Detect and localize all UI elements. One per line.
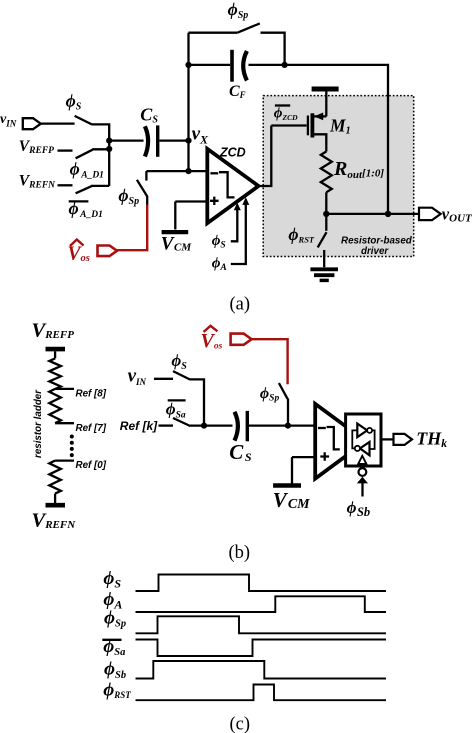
wire Rout to node xyxy=(325,192,327,214)
resistor ladder R bottom xyxy=(49,461,61,494)
switch phi_Sp top xyxy=(188,0,284,65)
wire bus to CS xyxy=(109,139,143,141)
svg-text:Ref [0]: Ref [0] xyxy=(76,460,107,471)
tap Ref7 xyxy=(55,423,107,434)
node dot bus top xyxy=(106,138,112,144)
wire plus input b xyxy=(292,456,315,458)
svg-text:Ref [k]: Ref [k] xyxy=(120,419,158,433)
driver box label xyxy=(341,236,413,258)
node vX vertical xyxy=(185,33,209,175)
wire vOUT xyxy=(326,213,419,215)
arrow phi_S xyxy=(212,203,241,251)
label phi_S c xyxy=(103,568,121,590)
node dot phi_Sp b xyxy=(285,423,291,429)
node dot bus b xyxy=(201,423,207,429)
wire CF to feedback xyxy=(249,65,389,214)
wire VREFP xyxy=(58,149,73,151)
capacitor CS b xyxy=(229,411,252,464)
vIN label b xyxy=(128,366,147,388)
node dot feedback xyxy=(385,211,391,217)
Ref k label xyxy=(120,419,158,433)
VREFP label xyxy=(19,138,54,156)
svg-text:Ref [8]: Ref [8] xyxy=(76,389,107,400)
caption (a) xyxy=(230,295,251,315)
svg-text:Resistor-based: Resistor-based xyxy=(341,236,413,247)
driver shaded box xyxy=(263,96,414,257)
red terminal Vos b xyxy=(201,326,252,352)
wire plus input xyxy=(175,200,207,202)
wire CS to comparator b xyxy=(249,424,315,426)
wire vIN to switch xyxy=(41,122,75,124)
bubble phi_Sb port xyxy=(359,468,367,476)
switch phi_Sp a xyxy=(118,171,147,207)
waveform phi_Sb xyxy=(136,661,387,679)
wire switch to bus xyxy=(92,124,110,186)
svg-text:(b): (b) xyxy=(229,543,251,563)
caption (c) xyxy=(230,715,251,733)
wire bus to CS b xyxy=(190,424,233,426)
svg-text:driver: driver xyxy=(361,246,389,257)
output terminal vOUT xyxy=(419,204,473,224)
wire Refk xyxy=(159,424,174,426)
capacitor CF xyxy=(229,50,247,100)
wire vIN b xyxy=(154,378,173,380)
svg-text:resistor ladder: resistor ladder xyxy=(33,389,44,458)
node dot bus mid xyxy=(106,146,112,152)
waveform phi_A xyxy=(136,596,387,612)
switch phi_Sp b xyxy=(260,383,288,426)
waveform phi_Sp xyxy=(136,616,387,633)
red wire Vos b xyxy=(252,339,288,384)
latch box xyxy=(346,414,381,466)
VCM supply a xyxy=(161,202,193,255)
wire latch output xyxy=(381,438,394,440)
switch phi_A_D1 xyxy=(70,149,110,180)
label phi_Sp c xyxy=(104,607,126,629)
VCM supply b xyxy=(273,457,310,512)
resistor ladder R top xyxy=(49,358,61,389)
supply bar VREFP xyxy=(46,349,66,358)
arrow phi_Sb xyxy=(347,477,371,519)
switch phi_S b xyxy=(171,351,190,380)
red wire Vos a xyxy=(117,205,147,251)
label phi_Sb c xyxy=(104,659,126,681)
capacitor CS xyxy=(140,104,158,156)
tap Ref8 xyxy=(55,389,107,400)
ground xyxy=(310,269,338,280)
switch phi_Sa_bar xyxy=(166,399,190,426)
waveform phi_Sa_bar xyxy=(136,640,387,657)
switch phi_S xyxy=(66,90,92,124)
ladder dots xyxy=(70,435,74,458)
wire comparator output xyxy=(259,126,272,187)
label phi_RST c xyxy=(103,680,131,701)
VREFN label xyxy=(19,173,56,191)
supply bar VDD xyxy=(312,89,339,116)
wire vX to CF xyxy=(189,64,231,66)
wire minus input xyxy=(146,170,207,172)
input terminal vIN xyxy=(0,112,41,129)
wire VREFN xyxy=(58,184,73,186)
supply bar VREFN xyxy=(46,494,66,506)
resistor Rout xyxy=(321,152,385,193)
switch phi_A_D1_bar xyxy=(69,186,110,221)
node vOUT junction xyxy=(323,211,329,217)
svg-text:ZCD: ZCD xyxy=(219,146,246,160)
VREFP label b xyxy=(32,320,75,342)
gate wire phi_ZCD_bar xyxy=(271,105,306,125)
svg-text:(a): (a) xyxy=(230,295,251,315)
op-amp comparator b xyxy=(315,404,366,479)
red terminal Vos a xyxy=(68,240,118,265)
node dot CF right xyxy=(282,62,288,68)
resistor ladder R mid xyxy=(49,389,61,423)
waveform phi_S xyxy=(136,575,387,592)
waveform phi_RST xyxy=(136,685,387,701)
wire CS to vX xyxy=(159,139,188,141)
wire switch to bus b xyxy=(190,379,204,425)
switch phi_RST xyxy=(288,214,326,267)
op-amp ZCD comparator xyxy=(207,146,258,224)
VREFN label b xyxy=(32,510,77,532)
svg-text:Ref [7]: Ref [7] xyxy=(76,423,107,434)
svg-text:(c): (c) xyxy=(230,715,251,733)
label phi_A c xyxy=(103,589,122,611)
arrow phi_A xyxy=(212,197,250,273)
tap Ref0 xyxy=(55,460,107,471)
resistor ladder rotated label xyxy=(33,389,44,458)
transistor M1 xyxy=(308,113,351,152)
output terminal THk xyxy=(394,429,448,451)
caption (b) xyxy=(229,543,251,563)
label phi_Sa_bar c xyxy=(102,636,125,658)
